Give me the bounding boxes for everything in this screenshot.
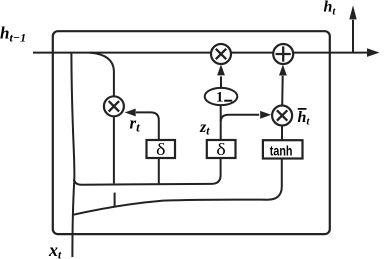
delta-r gate box — [147, 140, 176, 159]
wire: tanh to candidate multiplier — [281, 125, 283, 140]
wire: tanh bus (bus2) from trunk to tanh box — [73, 159, 282, 215]
delta-z gate box — [207, 140, 236, 159]
wire: branch from h line down to reset multiplier — [90, 53, 114, 97]
svg-text:1: 1 — [216, 90, 223, 106]
wire: crossing stub from reset multiplier to tanh bus — [114, 193, 116, 207]
wire: gate bus (bus1) from trunk to delta-z leg — [74, 158, 221, 185]
arrowhead up (h_t) — [349, 5, 356, 19]
adder circle — [273, 44, 293, 64]
arrowhead left into reset multiplier — [125, 109, 136, 117]
wire: h_t up arrow — [352, 20, 354, 53]
candidate multiplier circle — [272, 106, 292, 126]
wire+arrow: z branch right into candidate multiplier — [221, 115, 259, 121]
label h-bar_t — [298, 109, 311, 128]
svg-text:tanh: tanh — [270, 142, 293, 158]
svg-text:δ: δ — [216, 140, 226, 159]
wire: h_{t-1} horizontal line with right arrow — [33, 52, 367, 54]
tanh box — [263, 140, 303, 158]
wire: z vertical from delta-z to 1-minus ellipse — [220, 105, 222, 141]
wire: below reset multiplier down to gate bus — [113, 116, 115, 183]
wire: vertical trunk (h_{t-1}/x_t concat) — [71, 53, 74, 257]
update multiplier circle (z gate) — [211, 44, 231, 64]
svg-text:δ: δ — [156, 140, 166, 159]
wire: delta-r leg down to gate bus — [158, 158, 160, 184]
wire+arrow: 1-minus ellipse up to update multiplier — [220, 76, 222, 88]
reset multiplier circle (r gate) — [104, 96, 124, 116]
arrowhead right (h_t output) — [367, 48, 380, 57]
wire+arrow: candidate multiplier up to adder — [281, 76, 284, 106]
wire: delta-r up and left into reset multiplier — [136, 112, 159, 140]
1-minus ellipse — [205, 88, 238, 106]
GRU cell box — [53, 31, 330, 234]
